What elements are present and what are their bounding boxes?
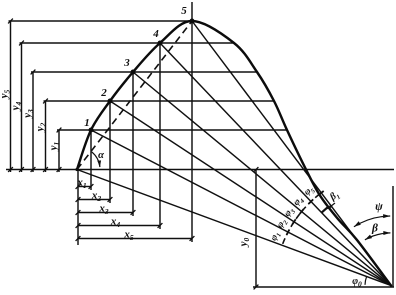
ray from pole to point 4 (160, 43, 391, 286)
svg-text:5: 5 (181, 5, 187, 17)
dashed angle arc for phi1..phi5 (283, 194, 320, 244)
dimension y5 (9, 21, 193, 172)
extension line point 2 vertical (109, 101, 111, 203)
arc tick marks at ray crossings (287, 191, 324, 235)
psi angle arc (354, 216, 390, 227)
extension line point 1 vertical (90, 130, 92, 190)
ray from pole to point 2 (110, 101, 391, 286)
dimension x5 (78, 238, 192, 240)
baseline axis (6, 169, 394, 171)
alpha angle arc (92, 152, 100, 167)
extension line point 5 vertical (191, 2, 193, 242)
jet trajectory curve (77, 21, 391, 286)
dimension y0 vertical (255, 170, 257, 288)
svg-text:α: α (98, 150, 104, 161)
extension line point 4 vertical (159, 43, 161, 229)
beta1 tick on curve (322, 207, 328, 212)
beta angle arc (365, 233, 391, 240)
right vertical line (392, 186, 394, 287)
extension line x=78 (origin vertical) (77, 170, 79, 246)
dimension y4 (20, 43, 235, 172)
dimension y1 (57, 130, 287, 172)
phi0 angle arc (365, 277, 367, 285)
ray from pole to point 3 (133, 72, 391, 286)
dimension x4 (78, 225, 160, 227)
dimension x1 (78, 186, 91, 188)
ray from pole to origin (77, 170, 391, 286)
curve point markers 1-5 (75, 19, 194, 172)
dimension x2 (78, 199, 110, 201)
beta1 arrow (328, 203, 335, 209)
dashed chord from origin to point 5 (77, 21, 192, 170)
svg-text:2: 2 (100, 87, 107, 99)
svg-text:3: 3 (123, 57, 130, 69)
ray from pole to point 5 (192, 21, 391, 286)
svg-text:ψ: ψ (375, 201, 383, 213)
dimension y3 (31, 72, 257, 172)
svg-text:4: 4 (152, 28, 159, 40)
bottom horizontal line (253, 286, 394, 288)
svg-text:1: 1 (84, 117, 90, 129)
dimension tick marks (8, 19, 258, 290)
dimension y2 (44, 101, 275, 172)
extension line point 3 vertical (132, 72, 134, 216)
svg-text:y5: y5 (0, 89, 12, 100)
dimension x3 (78, 212, 133, 214)
svg-text:β: β (371, 223, 378, 235)
ray from pole to point 1 (91, 130, 391, 286)
